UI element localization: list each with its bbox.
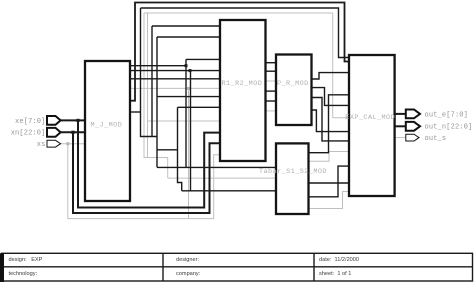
svg-text:P_R_MOD: P_R_MOD (277, 80, 309, 88)
svg-text:design: EXP: design: EXP (9, 257, 43, 263)
svg-text:sheet: 1 of 1: sheet: 1 of 1 (319, 271, 351, 277)
svg-text:out_s: out_s (425, 135, 447, 143)
svg-text:Tabar_S1_S2_MOD: Tabar_S1_S2_MOD (259, 168, 327, 176)
svg-text:out_e[7:0]: out_e[7:0] (425, 111, 469, 119)
svg-text:technology:: technology: (9, 271, 38, 277)
svg-text:company:: company: (176, 271, 201, 277)
svg-text:xs: xs (37, 141, 46, 149)
svg-text:R1_R2_MOD: R1_R2_MOD (222, 80, 263, 88)
svg-text:date: 11/2/2000: date: 11/2/2000 (319, 257, 359, 263)
svg-text:out_n[22:0]: out_n[22:0] (425, 124, 473, 132)
svg-text:M_J_MOD: M_J_MOD (91, 121, 123, 129)
svg-text:xn[22:0]: xn[22:0] (11, 130, 46, 138)
svg-text:designer:: designer: (176, 257, 199, 263)
svg-text:EXP_CAL_MOD: EXP_CAL_MOD (345, 114, 395, 122)
svg-text:xe[7:0]: xe[7:0] (15, 118, 45, 126)
